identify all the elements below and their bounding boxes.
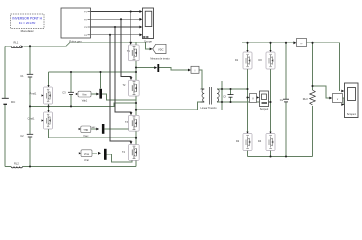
svg-text:Fc = 20 kHz: Fc = 20 kHz <box>19 21 36 25</box>
svg-text:Vcar: Vcar <box>84 159 89 162</box>
svg-text:T3: T3 <box>125 121 129 124</box>
svg-text:Cs: Cs <box>280 98 284 102</box>
svg-text:RL2: RL2 <box>14 161 19 165</box>
svg-text:+-: +- <box>300 42 303 45</box>
svg-text:VDC: VDC <box>158 47 164 51</box>
svg-text:RL3: RL3 <box>303 97 308 101</box>
svg-text:Scope2: Scope2 <box>260 108 269 111</box>
svg-text:C1: C1 <box>20 74 24 78</box>
svg-text:D2: D2 <box>236 140 240 143</box>
svg-text:THD: THD <box>83 130 88 132</box>
svg-text:D1: D1 <box>235 59 239 62</box>
svg-text:DC: DC <box>11 100 16 104</box>
svg-text:Pmd1: Pmd1 <box>30 91 37 95</box>
svg-text:RL1: RL1 <box>14 41 19 45</box>
svg-text:C2: C2 <box>20 134 24 138</box>
svg-text:C3: C3 <box>62 91 66 95</box>
svg-text:Vsec: Vsec <box>83 135 89 138</box>
svg-text:Cf: Cf <box>223 94 226 98</box>
svg-text:D4: D4 <box>258 140 262 143</box>
svg-text:T2: T2 <box>123 84 127 87</box>
svg-text:D3: D3 <box>259 59 263 62</box>
svg-text:Cmd1: Cmd1 <box>28 116 35 120</box>
svg-text:T4: T4 <box>122 151 126 154</box>
svg-text:Mesura de tensio: Mesura de tensio <box>150 57 170 60</box>
svg-text:Vrms: Vrms <box>84 153 90 156</box>
svg-text:Linear Transfo: Linear Transfo <box>201 107 218 110</box>
svg-text:VAC: VAC <box>91 126 96 129</box>
svg-text:Pulse gen: Pulse gen <box>69 40 82 44</box>
svg-text:Monofasic: Monofasic <box>21 29 35 33</box>
svg-text:INVERSOR PONT H: INVERSOR PONT H <box>12 16 42 20</box>
svg-text:Vab1: Vab1 <box>82 100 88 103</box>
svg-text:Scope1: Scope1 <box>347 112 357 116</box>
svg-text:Scope: Scope <box>144 39 152 43</box>
